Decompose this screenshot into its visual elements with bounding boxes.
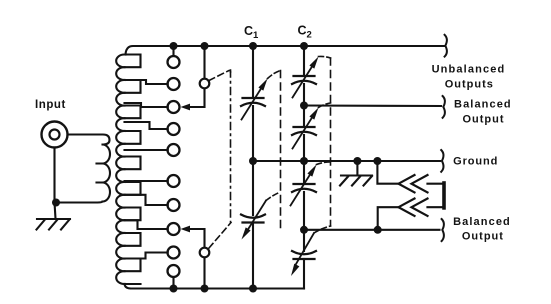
ground (chassis earth on ground bus) — [340, 161, 372, 186]
wire ground bus to upper feeder — [377, 161, 398, 184]
wire coil bottom into bus — [125, 284, 132, 289]
C2 cap1 arrow — [293, 65, 314, 98]
feeder connector upper (double chevron) — [399, 175, 445, 192]
wire C2 column top — [303, 46, 305, 74]
svg-text:1: 1 — [253, 30, 259, 41]
svg-text:Balanced: Balanced — [453, 216, 511, 228]
switch contact 2 — [168, 78, 180, 90]
brace unbalanced outputs — [445, 35, 447, 57]
switch contact 4 — [168, 123, 180, 135]
svg-text:Balanced: Balanced — [454, 99, 512, 111]
gang leader C1 lower — [266, 192, 281, 201]
brace ground — [441, 150, 443, 172]
ground (input earth) — [37, 219, 71, 230]
capacitor C2 section 2 — [292, 127, 316, 135]
wire lower feeder to balanced bottom line — [378, 207, 399, 230]
node top bus at contact column — [170, 42, 178, 50]
gang leader S2 wiper — [209, 223, 231, 249]
brace balanced output top — [443, 96, 445, 118]
C2 cap3 arrow — [291, 173, 312, 206]
switch contact 6 — [168, 175, 180, 187]
svg-text:Outputs: Outputs — [445, 78, 494, 90]
gang dashed line C1 — [280, 71, 282, 229]
node ground bus feeder tap — [373, 157, 381, 165]
svg-text:2: 2 — [307, 30, 312, 41]
gang leader S1 wiper — [209, 70, 231, 80]
gang leader C2 cap4 — [314, 226, 331, 233]
switch contact 8 — [168, 223, 180, 235]
node top bus at wiper column — [201, 42, 209, 50]
svg-text:C: C — [244, 24, 253, 38]
node C2 ground junction — [300, 157, 308, 165]
svg-text:Output: Output — [462, 230, 504, 242]
wire C2 between cap2 and cap3 — [303, 135, 305, 182]
primary winding — [97, 145, 111, 202]
switch contacts column — [168, 56, 180, 277]
wire C1 column bottom — [252, 223, 254, 289]
switch contact 9 — [168, 247, 180, 259]
coil tap wires — [125, 80, 168, 259]
rotary switch S2 wiper — [203, 258, 205, 289]
switch contact 7 — [168, 199, 180, 211]
gang leader C2 cap2 — [319, 103, 331, 108]
brace balanced output bottom — [442, 219, 444, 241]
rotary switch S1 wiper — [203, 46, 205, 79]
wire balanced output top line — [304, 104, 441, 107]
wire primary bottom to ground node — [56, 202, 103, 203]
node top bus at C1 — [249, 42, 257, 50]
svg-text:C: C — [298, 24, 307, 38]
wire top bus — [140, 45, 445, 47]
wire input jack to primary top — [68, 135, 110, 145]
wire contact 10 stub to bottom bus — [172, 277, 174, 289]
C1 lower arrow — [247, 201, 266, 232]
capacitor C2 section 4 — [292, 251, 316, 259]
gang leader C2 cap1 — [319, 56, 331, 58]
capacitor C1 lower section — [241, 215, 265, 223]
gang dashed line C2 — [330, 58, 332, 226]
feeder right bar — [442, 183, 446, 208]
switch contact 5 — [168, 144, 180, 156]
wire C2 column bottom — [303, 259, 305, 289]
node bottom bus at contact column — [170, 285, 178, 293]
node C1 ground junction — [249, 157, 257, 165]
gang dashed line switches — [230, 70, 232, 222]
node C2 balanced-bottom junction — [300, 226, 308, 234]
node bottom bus at wiper column — [201, 285, 209, 293]
node bottom bus at C1 — [249, 285, 257, 293]
svg-text:Input: Input — [35, 99, 66, 111]
switch contact 3 — [168, 101, 180, 113]
C1 upper arrow — [242, 87, 263, 120]
feeder connector lower (double chevron) — [399, 199, 445, 216]
wire ground bus — [253, 160, 440, 162]
gang leader C2 cap3 — [317, 162, 331, 165]
node C2 balanced-top junction — [300, 102, 308, 110]
wire bottom bus — [131, 287, 304, 289]
node ground bus feeder-earth tap — [353, 157, 361, 165]
svg-text:Ground: Ground — [453, 156, 498, 168]
C2 cap2 arrow — [293, 116, 314, 149]
wire C2 between cap1 and cap2 — [303, 84, 305, 125]
switch contact 10 — [168, 265, 180, 277]
input connector J1 — [42, 122, 68, 148]
svg-text:Output: Output — [462, 114, 504, 126]
node input ground junction — [52, 199, 60, 207]
secondary winding loop lines — [125, 55, 141, 285]
switch contact 1 — [168, 56, 180, 68]
svg-text:Unbalanced: Unbalanced — [432, 63, 506, 75]
gang leader C1 upper — [268, 71, 281, 79]
secondary winding bumps — [116, 54, 124, 283]
capacitor C2 section 1 — [292, 76, 316, 84]
capacitor C2 section 3 — [292, 184, 316, 192]
wire C2 between cap3 and cap4 — [303, 192, 305, 251]
wire C1 mid — [252, 106, 254, 215]
wire input jack down to ground node — [55, 148, 56, 219]
wire C1 column top — [252, 46, 254, 96]
capacitor C1 upper section — [241, 98, 265, 106]
wire top bus into coil — [126, 46, 141, 55]
node balanced bottom feeder tap — [374, 226, 382, 234]
node top bus at C2 — [300, 42, 308, 50]
wire contact 1 stub to top bus — [172, 46, 174, 56]
wire balanced output bottom line — [304, 229, 440, 231]
C2 cap4 arrow — [296, 233, 314, 264]
